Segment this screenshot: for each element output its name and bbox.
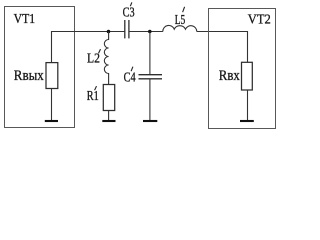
resistor Rvyh (output resistance) body [46, 63, 58, 89]
ground under R1 [102, 120, 115, 122]
wire L5 to VT2 with corner drop to Rvh [197, 32, 248, 63]
prime mark of C4 [131, 67, 133, 72]
ground under C4 [143, 120, 157, 122]
wire C3 right plate to L5 [129, 31, 163, 33]
wire R1 bottom lead [108, 111, 110, 121]
capacitor C3 plates [125, 20, 129, 38]
transistor block VT1 box [5, 7, 75, 128]
ground under Rvh [240, 120, 254, 122]
svg-text:C4: C4 [124, 70, 136, 85]
svg-text:Rвых: Rвых [14, 68, 45, 84]
svg-text:Rвх: Rвх [219, 68, 241, 84]
inductor L5 coil [163, 25, 197, 31]
svg-text:L5: L5 [175, 12, 186, 27]
svg-text:C3: C3 [123, 5, 135, 20]
prime mark of L2 [99, 49, 101, 53]
resistor R1 body [103, 85, 114, 111]
svg-text:VT1: VT1 [14, 11, 35, 26]
wire Rvh bottom lead [247, 90, 249, 121]
capacitor C4 bottom lead [149, 79, 151, 121]
capacitor C4 plates [139, 75, 163, 79]
capacitor C4 top lead [149, 32, 151, 75]
wire Rvyh top to main horizontal wire [52, 32, 125, 63]
node junction dot A (L2 tap) [107, 30, 111, 34]
inductor L2 vertical coil [104, 32, 108, 85]
node junction dot B (C4 tap) [148, 30, 152, 34]
transistor block VT2 box [209, 9, 276, 129]
prime mark of C3 [130, 2, 132, 6]
resistor Rvh (input resistance) body [242, 62, 253, 90]
svg-text:R1: R1 [87, 88, 99, 103]
ground under Rvyh [45, 120, 58, 122]
prime mark of R1 [95, 86, 97, 90]
svg-text:VT2: VT2 [248, 11, 271, 26]
wire Rvyh bottom lead [51, 89, 53, 121]
prime mark of L5 [183, 7, 185, 12]
